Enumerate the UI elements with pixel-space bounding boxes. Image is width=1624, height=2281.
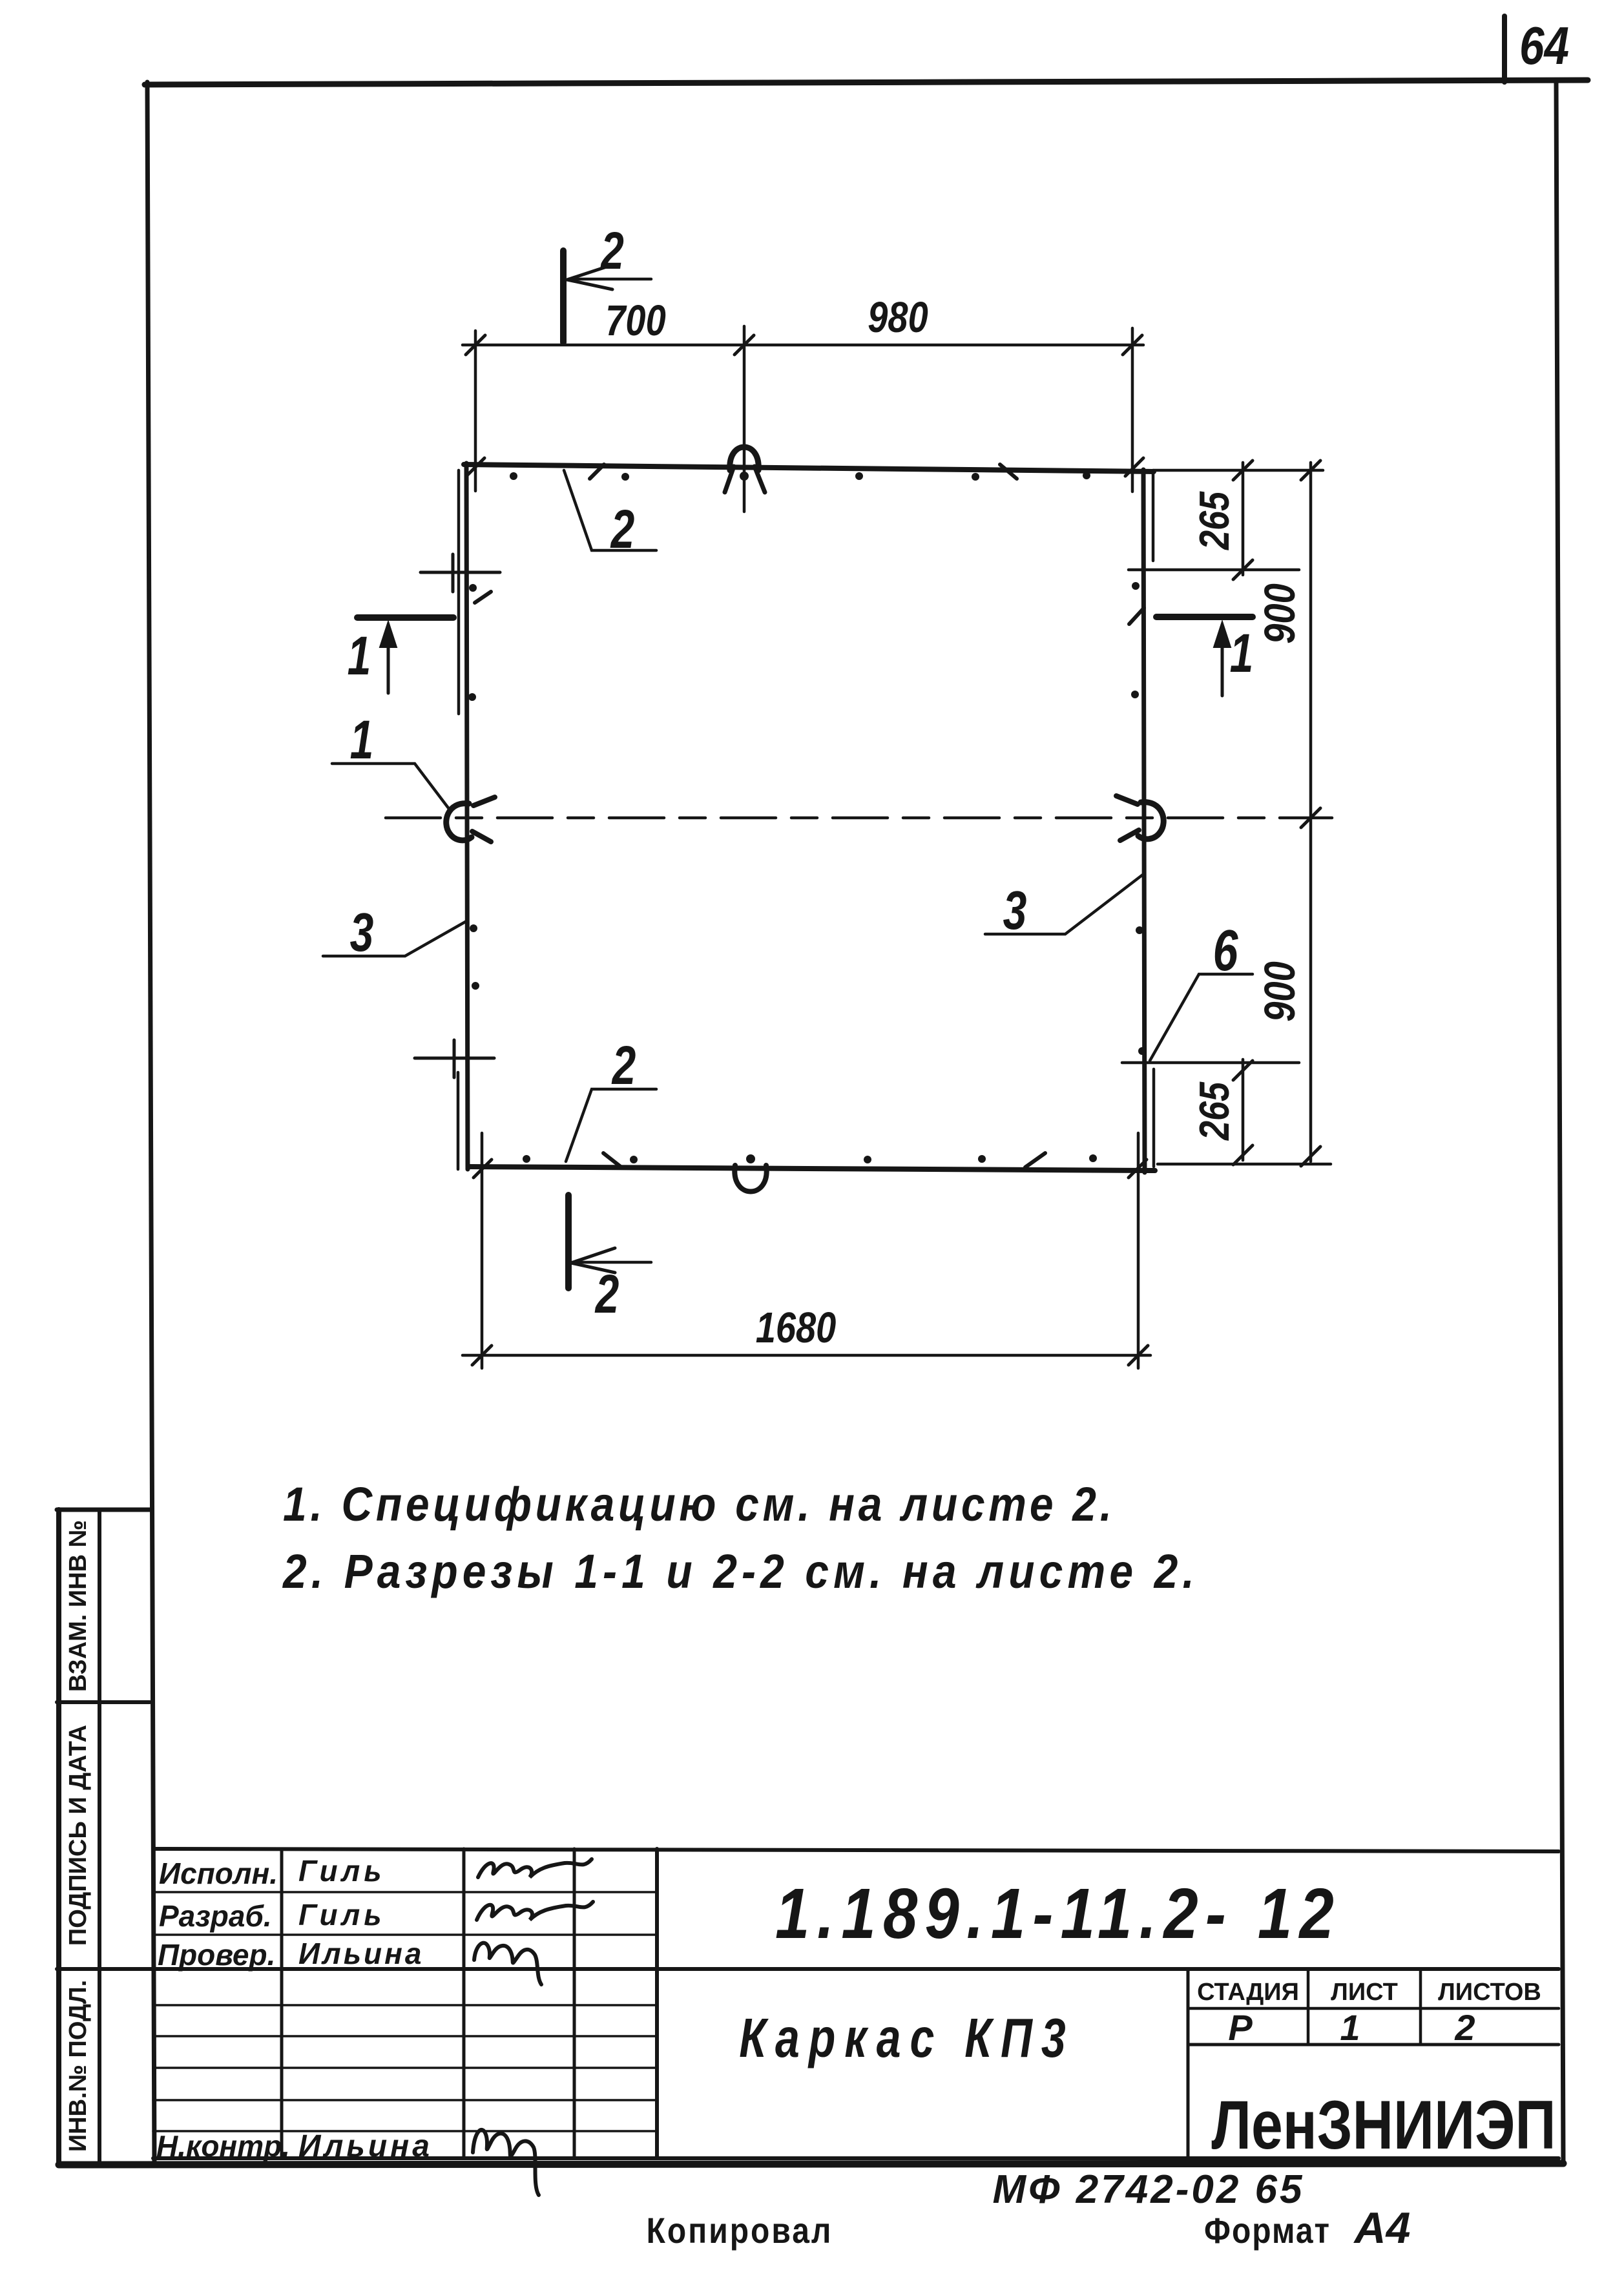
svg-text:1.189.1-11.2- 12: 1.189.1-11.2- 12 (775, 1873, 1341, 1953)
frame right border (1556, 81, 1563, 2163)
right dim line 265 bottom (1233, 1059, 1253, 1165)
svg-text:3: 3 (350, 902, 374, 963)
frame top border (145, 80, 1588, 85)
leader label 1 left (350, 709, 374, 771)
svg-text:Исполн.: Исполн. (159, 1857, 278, 1890)
stirrup ends dots right bar (1131, 582, 1146, 1055)
right top chord extension (1154, 469, 1323, 472)
dim text 265 bottom (1191, 1081, 1238, 1141)
svg-text:Копировал: Копировал (647, 2211, 833, 2251)
header LISTOV (1438, 1979, 1541, 2006)
bottom dim extension right (1137, 1133, 1140, 1368)
dim text 900 upper (1256, 583, 1304, 643)
lifting hook top center (725, 447, 765, 492)
center line dashed (386, 817, 1332, 820)
label Kopiroval (647, 2211, 833, 2251)
title block vertical col4 (655, 1849, 659, 2158)
stirrup ends dots top chord (510, 472, 1090, 481)
header STADIA (1197, 1979, 1299, 2006)
stadia table horizontals (1188, 2008, 1559, 2045)
svg-text:А4: А4 (1353, 2203, 1411, 2253)
svg-text:2: 2 (610, 499, 634, 560)
stirrup line left bottom (415, 1040, 494, 1078)
stirrup tick right bar (1129, 608, 1144, 624)
svg-text:Гиль: Гиль (298, 1898, 386, 1932)
svg-text:900: 900 (1256, 583, 1304, 643)
stadia table verticals (1308, 1969, 1421, 2045)
svg-text:Н.контр.: Н.контр. (156, 2129, 290, 2163)
signature 3 (474, 1943, 541, 1984)
svg-text:ИНВ.№ ПОДЛ.: ИНВ.№ ПОДЛ. (65, 1980, 92, 2152)
cage top chord (464, 464, 1154, 472)
title block vertical col3 (573, 1849, 576, 2158)
section label 1 right (1230, 623, 1254, 684)
left bar lap bottom (457, 1072, 460, 1169)
dim text 265 top (1191, 491, 1238, 550)
section label 2 bottom (594, 1264, 619, 1325)
leader 1 left hook (332, 764, 451, 811)
title block main divider (153, 1967, 1559, 1971)
svg-text:3: 3 (1003, 880, 1027, 941)
note line 1 (283, 1478, 1116, 1531)
svg-text:ЛИСТ: ЛИСТ (1331, 1979, 1398, 2006)
stamp divider VZAM/PODPIS (57, 1700, 150, 1704)
lifting hook right middle (1116, 796, 1163, 840)
page number 64 (1519, 16, 1569, 76)
top dim extension right (1131, 328, 1134, 492)
note line 2 (282, 1545, 1199, 1598)
svg-text:Р: Р (1228, 2007, 1253, 2048)
right dim line 900x2 (1301, 461, 1320, 1166)
label Razrab (159, 1899, 272, 1933)
hook dot top center (740, 472, 749, 481)
section label 1 left (348, 625, 371, 687)
svg-text:СТАДИЯ: СТАДИЯ (1197, 1979, 1299, 2006)
name Gil 2 (298, 1898, 386, 1932)
dim text 700 (605, 297, 665, 345)
section mark 1 right line (1156, 614, 1253, 620)
section mark 2 bottom arrow (571, 1248, 651, 1273)
bottom dim extension left (481, 1133, 484, 1368)
svg-text:6: 6 (1213, 919, 1239, 983)
leader label 6 right (1213, 919, 1239, 983)
svg-text:700: 700 (605, 297, 665, 345)
stamp divider PODPIS/INV (57, 1967, 153, 1971)
section mark 2 bottom vertical (565, 1195, 572, 1288)
svg-text:1: 1 (350, 709, 374, 771)
title block top line (153, 1849, 1559, 1851)
stirrup ends dots bottom chord (523, 1154, 1097, 1163)
svg-text:Разраб.: Разраб. (159, 1899, 272, 1933)
svg-text:2: 2 (599, 220, 623, 280)
title block row lines lower (153, 2005, 657, 2131)
label Ispoln (159, 1857, 278, 1890)
lifting hook left middle (446, 797, 495, 842)
dim text 1680 (756, 1304, 837, 1352)
label Format (1204, 2211, 1331, 2251)
org LenZNIIEP (1211, 2087, 1556, 2163)
svg-text:1: 1 (1340, 2007, 1360, 2048)
signature 2 (477, 1902, 593, 1920)
stamp column left border (56, 1510, 61, 2163)
svg-text:Формат: Формат (1204, 2211, 1331, 2251)
stamp label PODPIS I DATA (65, 1725, 92, 1946)
right bar lap top (1152, 470, 1155, 561)
hook dot bottom center (746, 1154, 755, 1163)
svg-text:2. Разрезы 1-1 и 2-2 см. н: 2. Разрезы 1-1 и 2-2 см. на листе 2. (282, 1545, 1199, 1598)
section mark 1 right arrow (1214, 621, 1231, 696)
title Karkas KP3 (739, 2008, 1075, 2069)
section mark 2 top arrow (567, 265, 651, 289)
top dim slash ticks (466, 335, 1142, 355)
svg-text:ЛИСТОВ: ЛИСТОВ (1438, 1979, 1541, 2006)
svg-text:Ильина: Ильина (298, 1937, 424, 1970)
value stage R (1228, 2007, 1253, 2048)
leader label 2 top (610, 499, 634, 560)
dim text 900 lower (1256, 961, 1304, 1021)
value listov 2 (1454, 2007, 1475, 2048)
svg-text:900: 900 (1256, 961, 1304, 1021)
svg-text:64: 64 (1519, 16, 1569, 76)
svg-text:МФ 2742-02 65: МФ 2742-02 65 (992, 2167, 1304, 2212)
cage right bar (1143, 470, 1145, 1172)
dim text 980 (868, 293, 928, 342)
svg-text:1: 1 (1230, 623, 1254, 684)
frame left border (147, 82, 154, 2165)
section mark 2 top vertical (560, 251, 567, 342)
svg-text:ЛенЗНИИЭП: ЛенЗНИИЭП (1211, 2087, 1556, 2163)
section label 2 top (599, 220, 623, 280)
stamp label VZAM INV (65, 1520, 92, 1692)
leader label 3 left (350, 902, 374, 963)
svg-text:265: 265 (1191, 491, 1238, 550)
stirrup tick marks bottom chord (603, 1153, 1045, 1167)
svg-text:2: 2 (1454, 2007, 1475, 2048)
label A4 (1353, 2203, 1411, 2253)
right bottom chord extension (1158, 1163, 1331, 1166)
stirrup line left top (421, 554, 500, 592)
title block vertical col1 (280, 1849, 284, 2158)
section mark 1 left arrow (380, 621, 397, 693)
leader 3 right (985, 875, 1143, 934)
label Prover (158, 1938, 275, 1972)
leader 2 bottom (566, 1089, 656, 1161)
label N kontr (156, 2129, 290, 2163)
svg-text:ВЗАМ. ИНВ №: ВЗАМ. ИНВ № (65, 1520, 92, 1692)
frame bottom border (59, 2163, 1563, 2165)
cage bottom chord (469, 1167, 1155, 1171)
right bar lap bottom (1152, 1069, 1156, 1167)
stamp label INV N PODL (65, 1980, 92, 2152)
stirrup tick marks top chord (590, 464, 1017, 479)
document number (775, 1873, 1341, 1953)
leader 6 right (1150, 974, 1253, 1061)
cage left bar (466, 463, 468, 1169)
leader 3 left (323, 921, 466, 956)
top dim extension left (474, 331, 477, 491)
bottom dim slash ticks (472, 1346, 1148, 1365)
top dimension line (463, 344, 1143, 347)
svg-text:1: 1 (348, 625, 371, 687)
stirrup line right bottom (1122, 1061, 1299, 1065)
leader label 2 bottom (611, 1035, 636, 1096)
name Ilina 1 (298, 1937, 424, 1970)
header LIST (1331, 1979, 1398, 2006)
name Ilina 2 (298, 2129, 433, 2163)
svg-text:Провер.: Провер. (158, 1938, 275, 1972)
title block row lines upper (153, 1892, 657, 1935)
name Gil 1 (298, 1854, 386, 1888)
section mark 1 left line (357, 614, 453, 621)
svg-text:ПОДПИСЬ И ДАТА: ПОДПИСЬ И ДАТА (65, 1725, 92, 1946)
leader label 3 right (1003, 880, 1027, 941)
svg-text:Гиль: Гиль (298, 1854, 386, 1888)
signature 1 (478, 1859, 592, 1877)
svg-text:1680: 1680 (756, 1304, 837, 1352)
stirrup ends dots left bar (468, 584, 479, 990)
stamp MF 2742-02 65 (992, 2167, 1304, 2212)
stirrup tick left bar (475, 592, 491, 603)
leader 2 top (564, 470, 656, 550)
title block bottom line (153, 2156, 1559, 2160)
svg-text:980: 980 (868, 293, 928, 342)
svg-text:Ильина: Ильина (298, 2129, 433, 2163)
lifting hook bottom center (734, 1165, 766, 1192)
stirrup line right top (1129, 568, 1299, 572)
right dim line 265 top (1233, 461, 1253, 579)
svg-text:2: 2 (611, 1035, 636, 1096)
svg-text:2: 2 (594, 1264, 619, 1325)
stadia table left border (1187, 1969, 1190, 2158)
stamp column inner divider (98, 1510, 101, 2163)
page number tick (1502, 16, 1507, 82)
svg-text:1. Спецификацию см. на листе: 1. Спецификацию см. на листе 2. (283, 1478, 1116, 1531)
top dim extension middle (743, 326, 746, 512)
stamp column top border (57, 1508, 150, 1512)
left bar lap top (457, 470, 461, 714)
bottom dimension line (463, 1354, 1150, 1357)
svg-text:Каркас КП3: Каркас КП3 (739, 2008, 1075, 2069)
corner slash ticks (466, 458, 1147, 1178)
signature 4 (473, 2130, 539, 2195)
value list 1 (1340, 2007, 1360, 2048)
title block vertical col2 (463, 1849, 466, 2158)
svg-text:265: 265 (1191, 1081, 1238, 1141)
